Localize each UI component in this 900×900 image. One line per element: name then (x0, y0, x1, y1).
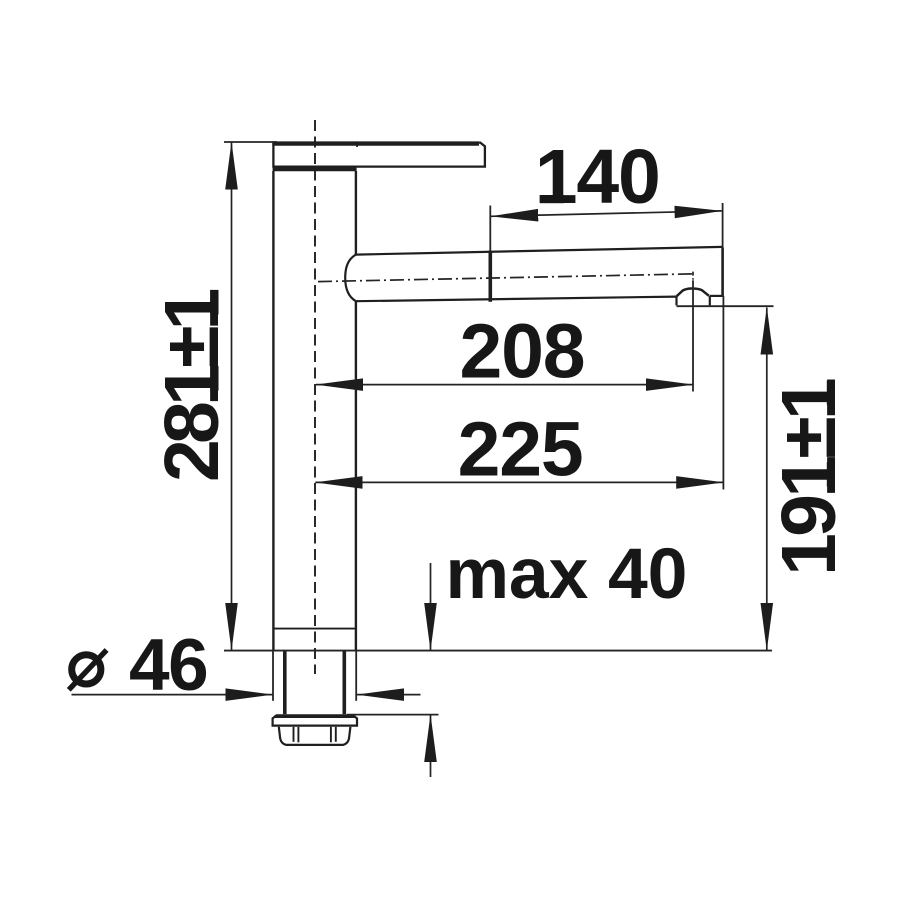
digit 1 foot serifs in 281±1 (210, 290, 218, 315)
mounting nut outline (279, 727, 351, 745)
svg-text:281±1: 281±1 (149, 289, 235, 482)
body right edge lower (355, 301, 357, 650)
nut facet line 2 (297, 727, 299, 743)
leader line dia46 left arrow (72, 694, 273, 696)
leader line dia46 right arrow (357, 694, 421, 696)
digit 1 foot serif in 140 (540, 195, 564, 203)
spout bottom right stub (710, 295, 724, 297)
flange top accent (275, 715, 356, 718)
dimension line max40 upper (430, 563, 432, 650)
svg-text:225: 225 (458, 407, 583, 493)
svg-text:140: 140 (535, 134, 660, 220)
dimension line 140 (491, 211, 722, 216)
nut facet line 4 (335, 727, 337, 742)
nut facet line 3 (330, 727, 332, 743)
extension line 225 right lower (722, 296, 724, 490)
lever top seam tick (356, 141, 358, 147)
svg-text:208: 208 (459, 309, 584, 395)
spout top line (356, 247, 723, 255)
body dashed centerline (314, 120, 316, 674)
nut facet line 1 (293, 727, 295, 742)
reference line aerator bottom (677, 305, 774, 307)
extension line dia46 right (355, 652, 357, 701)
mounting shank right edge (342, 652, 346, 715)
digit 1 foot serifs in 191±1 (827, 381, 835, 406)
spout bottom line (356, 297, 677, 302)
svg-text:191±1: 191±1 (766, 379, 852, 576)
spout left end cap arc (345, 255, 356, 302)
aerator housing box (677, 296, 710, 306)
aerator dome (677, 288, 709, 296)
dimension line 208 (316, 384, 693, 386)
body right edge upper (355, 171, 357, 255)
dimension line 191 (766, 308, 768, 651)
mounting shank left edge (283, 652, 287, 715)
spout right end edge (721, 248, 724, 297)
extension line dia46 left (272, 652, 274, 701)
extension line 281 top (224, 141, 277, 143)
body cap under lever (273, 167, 357, 172)
extension line aerator center (692, 280, 694, 391)
aerator vertical dash-dot (692, 272, 694, 280)
pull-out spout seam (488, 251, 492, 302)
dimension line 281 (231, 142, 233, 650)
countertop line (224, 650, 772, 652)
faucet lever handle bar (273, 143, 485, 167)
extension line 140 right upper (722, 203, 724, 248)
lever top edge thick accent (272, 141, 479, 145)
base flange washer (273, 715, 357, 725)
svg-text:max 40: max 40 (445, 534, 687, 614)
dimension line 225 (315, 481, 723, 483)
body joint line (273, 628, 356, 630)
diameter symbol of dia 46 label (69, 650, 107, 690)
body left edge (272, 171, 274, 650)
dimension line max40 lower (430, 715, 432, 777)
reference line counter bottom (347, 714, 439, 716)
spout dash-dot centerline (318, 274, 692, 282)
svg-text:46: 46 (129, 625, 207, 706)
extension line 140 left (489, 206, 491, 251)
